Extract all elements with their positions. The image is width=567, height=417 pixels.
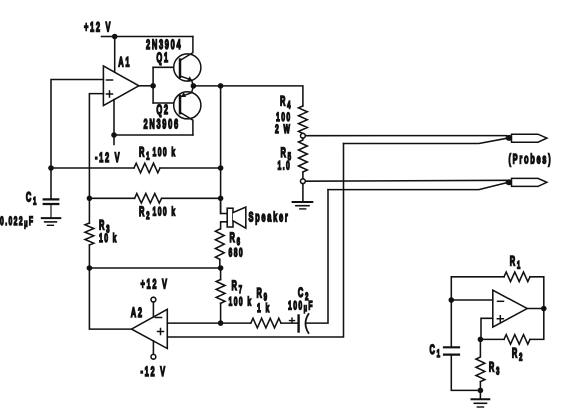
wire -12V rail — [114, 100, 193, 145]
resistor R9 — [251, 318, 281, 328]
svg-text:100μF: 100μF — [288, 300, 314, 314]
wire R7 top — [220, 268, 222, 280]
node top probe connection — [506, 135, 513, 141]
wire top probe sense lead — [344, 138, 508, 143]
node inset output — [541, 306, 547, 312]
node A1 output — [150, 83, 156, 89]
node R2 right — [218, 196, 224, 202]
wire A1 output — [139, 85, 153, 87]
svg-text:2 W: 2 W — [275, 123, 291, 137]
resistor R4 — [299, 106, 308, 133]
wire bottom probe sense lead — [328, 183, 507, 190]
wire base rail vertical — [152, 67, 154, 103]
wire A2 non-inverting input row to top probe sense — [167, 144, 343, 338]
svg-text:100 k: 100 k — [153, 146, 177, 160]
wire Q2 base rail — [153, 102, 180, 104]
wire A2 inverting input row — [167, 322, 251, 324]
wire +12V rail to Q1 collector — [115, 36, 193, 38]
wire R3 top — [88, 198, 90, 223]
wire R7 bottom — [220, 303, 222, 323]
transistor Q1 2N3904 — [174, 37, 201, 86]
svg-text:2N3904: 2N3904 — [146, 38, 182, 53]
transistor Q2 2N3906 — [174, 86, 201, 135]
capacitor C1 (inset) — [444, 347, 459, 354]
probe tip (bottom) — [512, 178, 547, 186]
op-amp A1 — [103, 66, 138, 106]
wire R2 row left — [89, 197, 134, 199]
node inset ground junction — [478, 388, 484, 394]
wire inset R3 bottom — [479, 382, 481, 391]
svg-text:+12 V: +12 V — [84, 20, 112, 35]
svg-text:+12 V: +12 V — [141, 277, 169, 292]
svg-text:680: 680 — [229, 247, 245, 261]
capacitor C2 100uF (polarized) — [290, 314, 309, 333]
wire inset R2 row — [480, 338, 504, 340]
svg-text:A2: A2 — [131, 306, 144, 321]
resistor R2 — [135, 194, 162, 204]
node output/R4 branch — [218, 83, 224, 89]
node emitter junction — [191, 83, 197, 89]
svg-text:A1: A1 — [118, 55, 131, 70]
wire A2 V- — [152, 341, 154, 355]
resistor R2 (inset) — [504, 335, 530, 345]
wire inset R2 right — [530, 309, 544, 340]
node R1 left — [48, 165, 54, 171]
node inset R2/R3 junction — [478, 337, 484, 343]
node bottom probe connection — [506, 179, 513, 185]
svg-text:1 k: 1 k — [257, 302, 271, 316]
node R7/A2 junction — [218, 320, 224, 326]
wire R3 bottom — [88, 245, 90, 268]
svg-text:(Probes): (Probes) — [509, 152, 553, 167]
wire inset C1 bottom — [451, 355, 480, 391]
wire bottom probe force lead — [305, 179, 506, 182]
resistor R1 (inset) — [504, 272, 530, 282]
wire +12V stub — [102, 36, 115, 38]
wire A1 V+ supply — [114, 37, 116, 73]
resistor R3 — [85, 223, 94, 245]
wire R1 row left — [51, 167, 134, 169]
svg-text:2N3906: 2N3906 — [144, 117, 180, 132]
node R1 right — [218, 165, 224, 171]
svg-text:Q2: Q2 — [156, 103, 169, 118]
resistor R6 — [215, 229, 224, 259]
wire emitter node to R4 branch — [193, 86, 303, 106]
node +12V junction — [112, 34, 118, 40]
terminal R5/ground junction — [301, 179, 306, 184]
wire C2 to bottom probe sense — [307, 190, 329, 324]
op-amp U1 (inset) — [493, 290, 527, 327]
terminal A2 V- — [151, 354, 156, 359]
wire A2 output to rail — [89, 268, 131, 329]
capacitor C1 0.022uF — [44, 199, 59, 217]
wire R6 bottom — [219, 259, 221, 268]
wire Q1 base rail — [153, 66, 180, 68]
op-amp A2 — [132, 309, 168, 348]
wire R5 bottom — [302, 172, 304, 179]
wire R1 row right — [160, 167, 221, 169]
wire output bus vertical — [220, 86, 222, 214]
wire A1 inverting input to C1 node — [51, 80, 103, 200]
terminal R4/R5 junction — [301, 133, 306, 138]
wire inset non-inverting input — [481, 318, 493, 339]
svg-text:100 k: 100 k — [229, 296, 253, 310]
wire A2 V+ — [152, 302, 154, 317]
ground (C1) — [42, 218, 61, 225]
terminal A2 V+ — [151, 297, 156, 302]
resistor R5 — [299, 138, 308, 172]
wire inset output — [527, 308, 544, 310]
wire top probe force lead — [305, 135, 506, 137]
node -12V junction — [111, 132, 117, 138]
svg-text:-12 V: -12 V — [141, 365, 167, 380]
node R2 left — [87, 196, 93, 202]
wire R2 row right — [162, 197, 221, 199]
node rail left — [87, 265, 93, 271]
wire inset feedback top right — [530, 277, 544, 309]
resistor R1 — [134, 163, 160, 173]
svg-text:Speaker: Speaker — [249, 210, 290, 225]
wire inset inverting input — [451, 299, 493, 301]
svg-text:Q1: Q1 — [156, 51, 169, 66]
svg-text:-12 V: -12 V — [95, 151, 121, 166]
resistor R7 — [216, 280, 225, 304]
svg-text:10 k: 10 k — [99, 232, 118, 246]
wire to ground — [302, 184, 304, 202]
svg-text:100 k: 100 k — [153, 206, 177, 220]
node inset inverting input — [449, 297, 455, 303]
ground (inset) — [472, 390, 490, 407]
resistor R3 (inset) — [476, 339, 485, 381]
wire inset left vertical — [450, 277, 452, 347]
ground (R5) — [293, 202, 313, 209]
wire R3-R6 bottom rail — [89, 267, 220, 269]
wire inset feedback top left — [451, 276, 504, 278]
wire A1 non-inverting input down (crosses R1 row) — [89, 94, 103, 199]
svg-text:0.022μF: 0.022μF — [0, 215, 34, 229]
svg-text:1.0: 1.0 — [278, 160, 292, 174]
node rail right — [218, 265, 224, 271]
wire R9 to C2 — [281, 322, 298, 324]
probe tip (top) — [512, 134, 547, 142]
speaker — [221, 198, 246, 229]
